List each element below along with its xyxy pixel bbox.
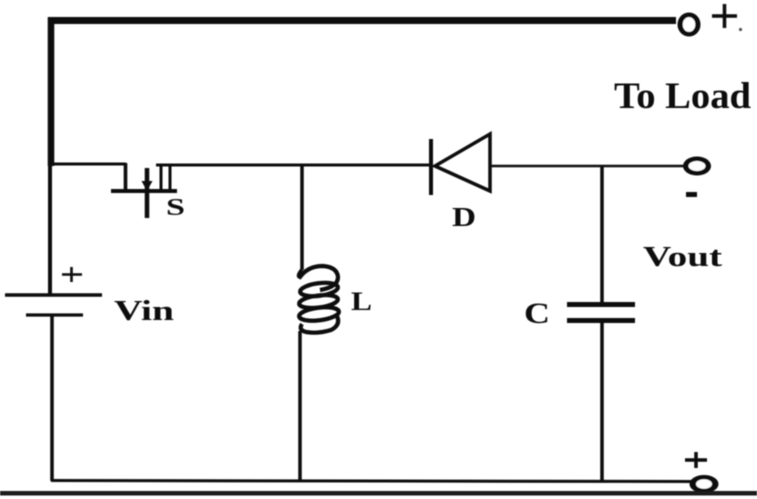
wire capacitor bottom lead bbox=[600, 323, 604, 481]
wire capacitor top lead bbox=[600, 165, 604, 302]
node terminal positive top right bbox=[678, 13, 701, 37]
wire middle center segment bbox=[156, 164, 431, 167]
wire bottom bbox=[51, 481, 691, 482]
svg-text:D: D bbox=[452, 202, 476, 232]
node terminal positive bottom right bbox=[690, 475, 719, 493]
wire left thick vertical bbox=[48, 17, 55, 166]
svg-text:To Load: To Load bbox=[614, 76, 751, 117]
transistor S (switch) bbox=[111, 163, 177, 218]
inductor L bbox=[298, 266, 339, 333]
svg-text:L: L bbox=[351, 287, 372, 316]
wire middle left segment bbox=[49, 163, 126, 166]
label + (top right) bbox=[712, 4, 737, 28]
label - (minus, right) bbox=[686, 192, 697, 197]
svg-text:C: C bbox=[524, 297, 550, 330]
wire inductor top lead bbox=[300, 164, 304, 270]
label + (bottom right) bbox=[685, 452, 707, 468]
battery Vin bbox=[5, 295, 102, 315]
svg-text:Vout: Vout bbox=[643, 242, 723, 273]
svg-text:S: S bbox=[166, 195, 185, 221]
border bottom bbox=[0, 491, 757, 496]
capacitor C bbox=[567, 305, 635, 321]
label period after + bbox=[739, 28, 742, 31]
wire middle right segment bbox=[490, 165, 684, 168]
label + (battery) bbox=[62, 267, 82, 282]
wire battery bottom lead bbox=[50, 315, 54, 481]
wire battery top lead bbox=[48, 164, 52, 295]
svg-text:Vin: Vin bbox=[114, 295, 174, 327]
wire top thick bbox=[48, 17, 676, 24]
diode D bbox=[431, 134, 490, 195]
wire inductor bottom lead bbox=[298, 331, 302, 481]
node terminal negative output (middle right) bbox=[683, 157, 711, 176]
